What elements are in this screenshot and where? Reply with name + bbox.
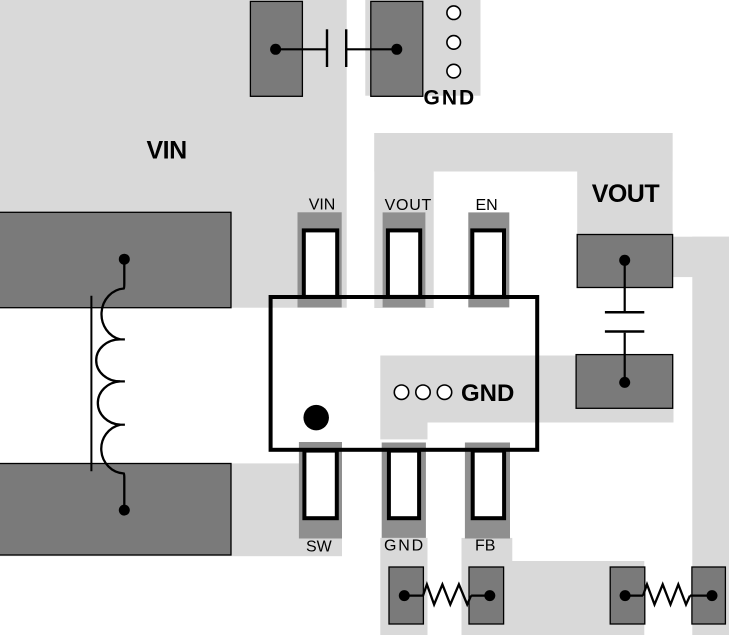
capacitor C1 left plate <box>326 29 328 67</box>
inductor L1 core bar <box>90 296 92 472</box>
svg-text:VOUT: VOUT <box>385 197 432 214</box>
pin GND <box>389 451 419 519</box>
node VOUT label block (right) <box>577 133 672 237</box>
capacitor C2 bottom pad <box>576 355 673 409</box>
op-amp U1 IC outline <box>271 297 538 450</box>
node GND column lower (to R1) <box>380 538 427 635</box>
svg-text:GND: GND <box>461 380 514 407</box>
thermal via 3 <box>437 385 451 399</box>
junction dot C1 right <box>391 44 402 55</box>
node GND band (middle, through IC) <box>381 356 674 423</box>
via hole 1 <box>447 6 461 20</box>
junction dot C1 left <box>270 44 281 55</box>
pin pad strip VOUT <box>383 212 426 307</box>
inductor L1 bottom pad <box>0 464 231 556</box>
capacitor C1 left pad <box>250 1 302 96</box>
pin 1 marker dot <box>303 405 329 431</box>
capacitor C1 symbol: left wire <box>276 48 326 50</box>
node FB block (bottom, R1 to R2) <box>462 561 645 635</box>
pin EN <box>472 230 504 297</box>
pin pad strip SW <box>299 442 342 539</box>
svg-text:GND: GND <box>424 87 477 110</box>
resistor R1 left wire <box>404 594 423 596</box>
resistor R1 left pad <box>389 567 423 624</box>
node FB column (below FB pin) <box>462 538 513 568</box>
resistor R2 right pad <box>692 567 726 624</box>
node VOUT column to VOUT pin <box>374 133 433 308</box>
node VOUT right column down to R2 <box>692 237 729 635</box>
pin pad strip GND <box>382 443 426 538</box>
capacitor C2 top pad <box>577 235 672 288</box>
junction dot R1 right <box>484 590 495 601</box>
pin FB <box>473 451 504 519</box>
junction dot C2 bottom <box>619 377 630 388</box>
node SW strip (bottom-left, inductor to SW pin) <box>0 463 342 556</box>
junction dot L1 bottom <box>119 505 130 516</box>
inductor L1 cusp tick 3 <box>117 424 125 426</box>
svg-text:VIN: VIN <box>147 137 187 165</box>
node VOUT right arm to feedback <box>672 237 729 277</box>
junction dot R2 right <box>707 590 718 601</box>
node VOUT plane top band <box>374 133 672 172</box>
capacitor C1 right plate <box>345 29 347 67</box>
junction dot L1 top <box>119 254 130 265</box>
capacitor C2 bottom wire <box>624 333 626 383</box>
svg-text:VIN: VIN <box>309 197 336 214</box>
via hole 2 <box>447 36 461 50</box>
svg-text:SW: SW <box>306 539 333 556</box>
junction dot R1 left <box>399 590 410 601</box>
resistor R2 left wire <box>625 594 643 596</box>
node VIN copper plane (top-left) <box>0 0 347 308</box>
svg-text:EN: EN <box>476 197 498 214</box>
capacitor C1 right wire <box>347 48 397 50</box>
capacitor C2 bottom plate <box>605 330 644 333</box>
resistor R2 zigzag <box>643 584 690 604</box>
thermal via 2 <box>416 385 430 399</box>
pin VIN <box>304 230 337 297</box>
svg-text:GND: GND <box>384 538 425 555</box>
pin pad strip FB <box>465 443 510 539</box>
thermal vias in IC pad <box>394 385 408 399</box>
junction dot C2 top <box>619 255 630 266</box>
inductor L1 top pad <box>0 212 231 307</box>
pin pad strip VIN <box>298 212 342 307</box>
svg-text:FB: FB <box>475 538 495 555</box>
svg-text:VOUT: VOUT <box>592 180 660 208</box>
resistor R2 left pad <box>610 567 645 624</box>
node GND strip (input cap ground, top) <box>365 0 480 96</box>
node GND column upper (to GND pin) <box>380 356 427 440</box>
capacitor C1 right pad <box>371 1 423 96</box>
inductor L1 winding <box>96 259 124 510</box>
inductor L1 cusp tick 2 <box>117 380 125 382</box>
via hole 3 <box>447 64 461 78</box>
capacitor C2 top plate <box>605 311 644 314</box>
resistor R1 right wire <box>471 594 490 596</box>
junction dot R2 left <box>620 590 631 601</box>
pin VOUT <box>388 230 420 297</box>
pin SW <box>304 451 336 519</box>
resistor R1 zigzag <box>423 584 471 604</box>
resistor R1 right pad <box>469 567 504 624</box>
capacitor C2 top wire <box>624 260 626 311</box>
resistor R2 right wire <box>690 594 712 596</box>
inductor L1 cusp tick 1 <box>117 338 125 340</box>
pin pad strip EN <box>468 212 509 307</box>
